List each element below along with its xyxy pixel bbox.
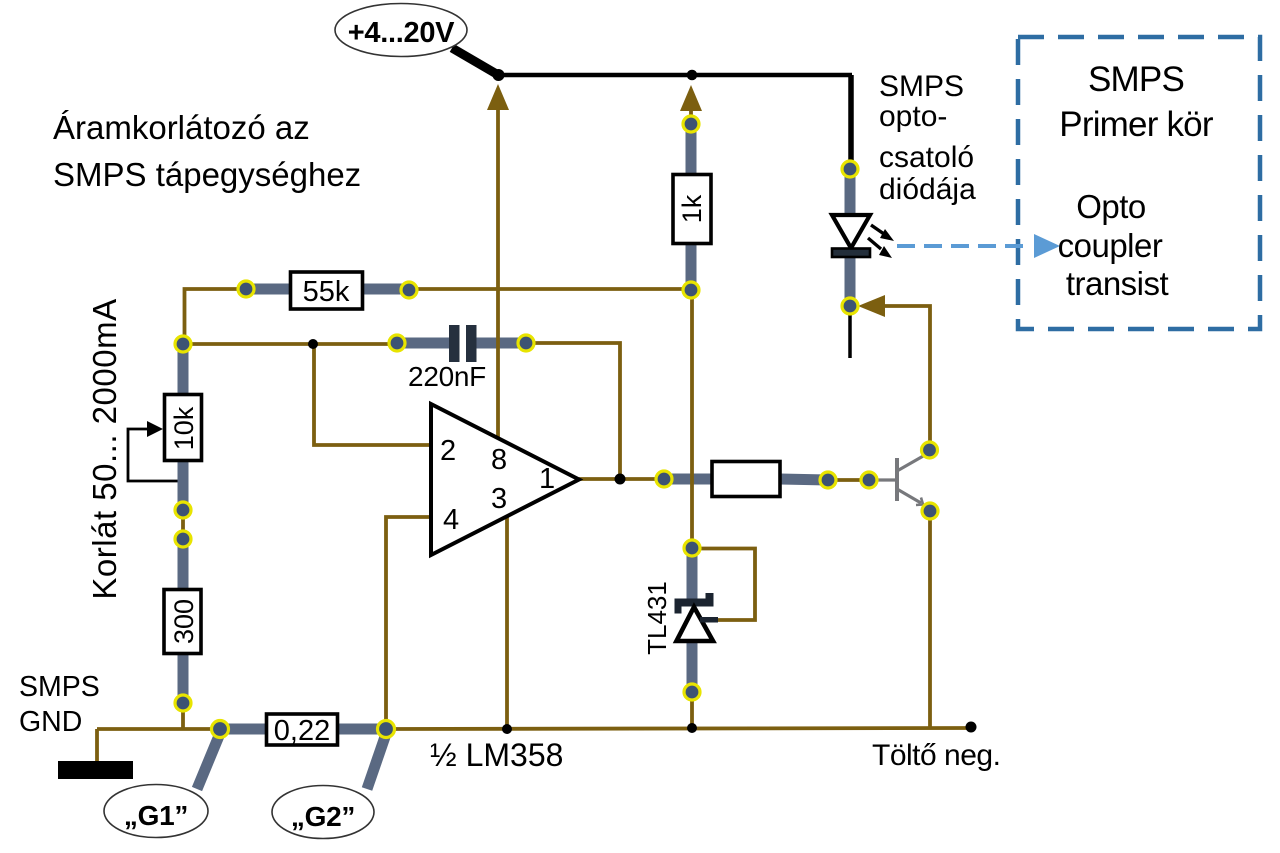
svg-text:GND: GND xyxy=(19,706,82,738)
svg-text:0,22: 0,22 xyxy=(274,715,330,747)
svg-text:1: 1 xyxy=(539,463,555,495)
svg-text:opto-: opto- xyxy=(879,100,947,133)
svg-text:4: 4 xyxy=(443,504,459,536)
svg-text:SMPS: SMPS xyxy=(879,70,964,103)
svg-text:SMPS tápegységhez: SMPS tápegységhez xyxy=(53,156,361,193)
svg-text:1k: 1k xyxy=(677,194,707,223)
svg-text:„G2”: „G2” xyxy=(291,801,355,832)
svg-text:300: 300 xyxy=(169,599,199,644)
svg-text:„G1”: „G1” xyxy=(124,800,188,831)
svg-text:3: 3 xyxy=(491,483,507,515)
svg-text:+4...20V: +4...20V xyxy=(348,17,455,49)
svg-text:Korlát 50... 2000mA: Korlát 50... 2000mA xyxy=(86,298,123,599)
svg-text:Áramkorlátozó az: Áramkorlátozó az xyxy=(53,109,310,146)
svg-text:SMPS: SMPS xyxy=(19,671,100,703)
svg-text:½ LM358: ½ LM358 xyxy=(430,737,563,773)
svg-text:Opto: Opto xyxy=(1076,188,1146,225)
svg-text:2: 2 xyxy=(440,435,456,467)
svg-text:coupler: coupler xyxy=(1058,227,1163,264)
svg-text:Töltő neg.: Töltő neg. xyxy=(872,739,1000,772)
svg-text:8: 8 xyxy=(491,444,507,476)
svg-text:55k: 55k xyxy=(303,276,350,308)
svg-text:Primer kör: Primer kör xyxy=(1059,105,1214,144)
svg-text:SMPS: SMPS xyxy=(1088,60,1184,99)
svg-text:transist: transist xyxy=(1066,265,1169,302)
svg-text:220nF: 220nF xyxy=(408,361,486,392)
svg-text:10k: 10k xyxy=(169,406,199,450)
svg-text:csatoló: csatoló xyxy=(879,141,974,174)
svg-text:diódája: diódája xyxy=(879,173,976,206)
svg-text:TL431: TL431 xyxy=(642,581,672,655)
